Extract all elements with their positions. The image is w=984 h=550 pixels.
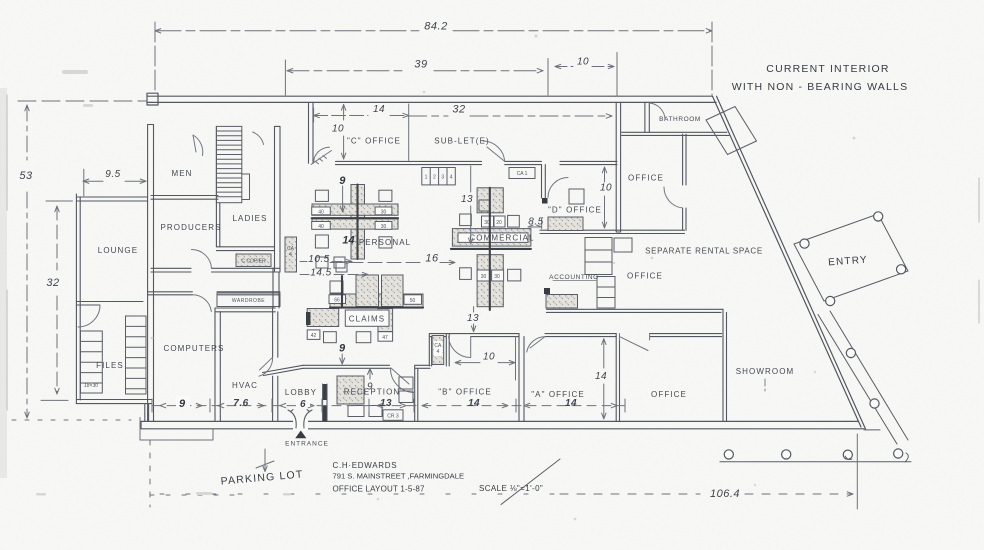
producers bottom wall [151, 268, 280, 272]
8.5 dim [528, 218, 542, 228]
hvac left wall [215, 308, 220, 421]
files bottom wall [76, 400, 151, 404]
upper office right wall segments [683, 134, 686, 230]
14 vertical (A office) [602, 339, 606, 419]
entry rotated square [794, 214, 908, 301]
sub-let door arc [483, 141, 505, 161]
corridor door arc [192, 295, 211, 312]
copier box [236, 254, 271, 267]
corridor wall below producers [148, 292, 280, 295]
wing to main-bottom connector [145, 404, 149, 422]
ladies right thick wall [275, 126, 281, 272]
9 claims vertical [340, 354, 345, 364]
short line right of bottom corner [864, 429, 880, 431]
wall below C office and sub-let [336, 161, 618, 164]
vestibule rotated rect on diagonal [706, 107, 757, 155]
10 dim (B office) [455, 360, 515, 364]
10 vertical dim (C office) [343, 105, 345, 160]
10 dim top [555, 66, 614, 68]
reception top wall [303, 365, 430, 368]
32 dim [409, 115, 612, 117]
ladies bottom wall [216, 247, 274, 251]
upper office door arc [664, 187, 683, 208]
B/A divider wall [519, 334, 524, 422]
top-left wall cap [147, 93, 158, 105]
entrance gap [293, 419, 308, 431]
lounge/files divider [76, 302, 143, 306]
scan smudges [36, 34, 856, 520]
wardrobe [217, 293, 280, 307]
CA4 tall box left of personal [285, 237, 297, 272]
top wall [147, 96, 716, 102]
wing left wall [76, 194, 80, 404]
bold 9 below C office [340, 186, 344, 212]
84.2 dim [155, 30, 712, 32]
corridor upper wall [547, 309, 724, 312]
lobby angled corridor wall [263, 365, 304, 375]
main diagonal wall right [713, 96, 866, 429]
bathroom door arc [649, 103, 665, 119]
stair return [242, 174, 250, 200]
files shelves right [126, 316, 147, 394]
middle shelf column A [585, 238, 612, 275]
men door arc [193, 135, 203, 156]
sub-let boxes 1 2 3 4 [422, 168, 456, 185]
CA 1 box [509, 168, 535, 179]
D-office door arc [548, 178, 568, 198]
D-office door jamb dot [542, 198, 548, 204]
ladies wall to hvac connector [273, 268, 279, 308]
entrance triangle [295, 431, 306, 439]
39 dim [287, 70, 543, 72]
main left wall [148, 125, 154, 422]
reception door arc [390, 368, 414, 393]
bottom colonnade line [720, 453, 911, 462]
14 dim [314, 115, 409, 117]
hvac right wall lower [273, 376, 278, 421]
office door leaf slash [620, 334, 650, 351]
accounting shelf column [597, 277, 615, 309]
accounting desk [546, 295, 578, 309]
alcove wall up to corridor [429, 334, 470, 366]
files shelves left [81, 316, 147, 394]
A/office divider wall [616, 334, 619, 422]
hvac right wall upper [273, 306, 278, 357]
B-office door leaf+arc [449, 337, 471, 358]
faint right edge marks [978, 178, 980, 323]
32 left dim [56, 206, 58, 394]
D-office left wall [542, 165, 546, 198]
10.5 / 14.5 dims [300, 259, 352, 263]
reception right wall [415, 365, 418, 421]
16 dim [330, 260, 455, 264]
corridor jamb dark bar left of claims [306, 312, 311, 325]
showroom left wall [723, 309, 727, 421]
c-office left wall [309, 102, 314, 163]
right main vertical thick wall [616, 102, 620, 232]
files door arc [78, 305, 100, 327]
bottom wall [141, 421, 864, 428]
hvac door arc [259, 357, 273, 376]
lobby right jambs (dark) [323, 384, 327, 400]
lounge top wall [76, 197, 147, 201]
13 vertical (claims->wall) [471, 307, 475, 332]
corridor lower wall [471, 334, 722, 337]
13 vertical top (commercial) [469, 166, 473, 244]
entrance flare [288, 410, 312, 428]
producers door arc [192, 249, 212, 268]
10 vertical (D office) [602, 167, 606, 228]
faint left scan streak [0, 88, 7, 478]
d-office desk [548, 217, 583, 231]
9 reception vertical [368, 369, 373, 380]
A-office door arc [527, 337, 545, 352]
D-office bottom wall / wall below D to x685 [540, 230, 685, 233]
stairs [216, 126, 249, 202]
men/producers divider wall [151, 196, 218, 200]
9.5 dim [83, 180, 146, 182]
walkway below entry [818, 311, 908, 444]
ladies left wall [216, 126, 219, 246]
53 dim [26, 105, 28, 418]
hvac top wall [215, 308, 275, 312]
ladies door arc [253, 132, 264, 145]
c-office door arc [311, 147, 332, 164]
